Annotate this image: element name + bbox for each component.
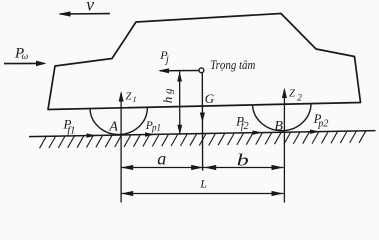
- svg-text:Z: Z: [126, 91, 132, 102]
- svg-text:ω: ω: [22, 52, 29, 62]
- svg-text:p1: p1: [151, 122, 161, 132]
- svg-text:1: 1: [133, 95, 137, 104]
- svg-text:Z: Z: [289, 89, 295, 100]
- svg-text:h: h: [160, 97, 175, 104]
- svg-text:b: b: [237, 152, 249, 170]
- svg-text:L: L: [199, 179, 206, 191]
- svg-text:g: g: [163, 88, 175, 94]
- svg-text:v: v: [86, 0, 94, 14]
- svg-text:f2: f2: [241, 121, 249, 132]
- svg-text:a: a: [157, 148, 166, 168]
- svg-text:B: B: [274, 119, 283, 134]
- svg-text:G: G: [205, 91, 215, 106]
- svg-text:f1: f1: [67, 125, 75, 136]
- svg-text:Trọng tâm: Trọng tâm: [210, 57, 255, 72]
- svg-text:2: 2: [297, 93, 302, 103]
- svg-text:A: A: [108, 120, 118, 135]
- svg-text:p2: p2: [317, 118, 328, 129]
